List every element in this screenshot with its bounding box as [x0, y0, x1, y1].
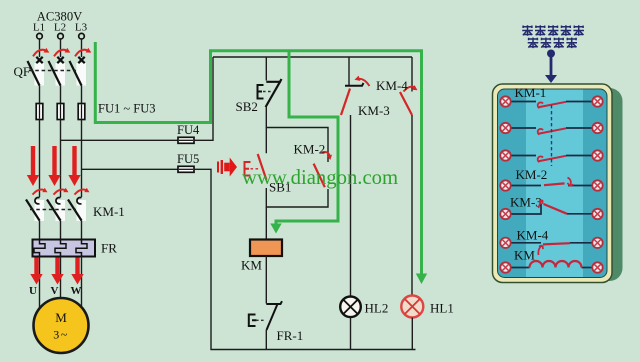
contact cross QF pole2 [57, 57, 63, 63]
current arrow phase3 [68, 146, 80, 186]
panel row 5 KM-3 contact [511, 200, 592, 214]
coil KM [250, 240, 282, 257]
svg-text:KM: KM [241, 258, 262, 273]
contact KM-4 blade [400, 92, 412, 115]
terminal screw R3 [592, 150, 602, 160]
wire KM-4 branch [411, 57, 413, 92]
svg-text:L1: L1 [33, 22, 45, 34]
header char 触 [561, 25, 572, 36]
wire tap FU5 [82, 168, 179, 170]
closing arrow QF pole3 [75, 48, 91, 57]
svg-text:KM-2: KM-2 [516, 167, 548, 182]
svg-text:KM: KM [514, 248, 535, 263]
contact KM-2 blade [314, 164, 325, 188]
terminal screw L4 [500, 180, 510, 190]
white band KM-1 pole3 [77, 200, 87, 221]
fuse FU5 [178, 166, 194, 172]
terminal screw L1 [500, 96, 510, 106]
current arrow phase1 [27, 146, 39, 186]
seat KM-3 [345, 83, 364, 86]
motor M [34, 298, 89, 353]
panel row 3 KM-1 main contact c [511, 156, 592, 163]
wire SB2 drop [265, 57, 267, 81]
header char 作 [566, 38, 577, 49]
svg-text:L3: L3 [75, 22, 88, 34]
panel shadow [503, 88, 623, 281]
svg-text:KM-4: KM-4 [517, 228, 549, 243]
terminal screw R6 [592, 238, 602, 248]
pushbutton SB1 blade (pressed, red) [258, 154, 267, 180]
svg-text:www.diangon.com: www.diangon.com [242, 167, 398, 189]
wire box to coil [265, 207, 267, 240]
panel inner [498, 89, 608, 278]
terminal screw R5 [592, 209, 602, 219]
wire QF to FU2 [60, 86, 62, 105]
closing arrow KM-2 [322, 152, 330, 157]
contact seat KM-1 pole1 [35, 197, 40, 203]
green arrow to HL1 [416, 274, 427, 285]
panel light band [526, 90, 583, 278]
wire L2 to QF [60, 39, 62, 57]
svg-text:FU4: FU4 [177, 123, 200, 137]
contactor blade KM-1 pole1 [26, 200, 40, 221]
white band QF pole1 [35, 63, 45, 86]
svg-text:QF: QF [14, 64, 31, 79]
actuator SB2 [258, 85, 264, 99]
wire FU2 down [60, 120, 62, 198]
wire FR to motor U [39, 257, 41, 309]
wire QF to FU3 [81, 86, 83, 105]
wire FU3 down [81, 120, 83, 198]
panel row 6 KM-4 contact [511, 243, 592, 255]
white band QF pole3 [77, 63, 87, 86]
closing arrow QF pole2 [54, 48, 70, 57]
header char 流 [535, 25, 546, 36]
svg-text:HL1: HL1 [430, 301, 454, 316]
contact seat KM-1 pole2 [56, 198, 61, 204]
white band KM-1 pole2 [56, 200, 66, 221]
wire FU5 riser to bottom bus [194, 169, 416, 349]
wire FR-1 to bus [265, 330, 267, 350]
heater element FR pole2 [55, 241, 66, 257]
terminal screw L2 [500, 123, 510, 133]
wire HL2 to bus [350, 317, 352, 350]
breaker blade QF pole1 [28, 61, 40, 86]
wire control top bus [213, 56, 412, 58]
wire FU1 down [39, 120, 41, 198]
terminal screw R7 [592, 262, 602, 272]
wire FR to motor W [81, 257, 83, 308]
contact cross QF pole3 [78, 57, 84, 63]
closing arrow KM-1 pole2 [54, 188, 69, 195]
wire KM-1 to FR pole3 [81, 221, 83, 241]
wire coil to FR-1 [265, 256, 267, 304]
dashed link SB1 red [251, 168, 260, 170]
terminal screw L5 [500, 209, 510, 219]
svg-text:FU5: FU5 [177, 152, 199, 166]
terminal L3 [79, 33, 85, 39]
svg-text:KM-1: KM-1 [93, 204, 125, 219]
svg-text:FR: FR [101, 241, 117, 256]
white band QF pole2 [56, 63, 66, 86]
header char 交 [522, 25, 533, 36]
fuse FU4 [178, 137, 194, 143]
closing arrow KM-4 [404, 87, 416, 92]
wire KM-1 to FR pole2 [60, 221, 62, 241]
thermal contact FR-1 [266, 301, 282, 330]
svg-text:W: W [71, 285, 82, 297]
contact cross QF pole1 [36, 57, 42, 63]
dashed link FR-1 [256, 319, 265, 321]
linkage KM-1 dashed [30, 209, 76, 211]
terminal screw R2 [592, 123, 602, 133]
wire KM-4 to HL1 [411, 115, 413, 296]
linkage QF dashed [29, 70, 76, 72]
closing arrow KM-1 pole1 [33, 188, 48, 195]
opening arrow KM-3 [358, 79, 370, 86]
svg-text:3~: 3~ [53, 328, 69, 342]
wire QF to FU1 [39, 86, 41, 105]
terminal screw R4 [592, 180, 602, 190]
wire tap FU4 [61, 139, 179, 141]
wire KM-1 to FR pole1 [39, 221, 41, 241]
current arrow motor W [71, 258, 83, 285]
breaker blade QF pole3 [70, 61, 82, 86]
svg-text:V: V [51, 285, 59, 297]
terminal screw R1 [592, 96, 602, 106]
current arrow phase2 [48, 146, 60, 186]
contactor blade KM-1 pole3 [68, 200, 82, 221]
svg-text:M: M [55, 310, 67, 325]
wire parallel box [266, 128, 328, 208]
svg-text:U: U [29, 285, 37, 297]
header char 接 [548, 25, 559, 36]
heater element FR pole3 [76, 241, 87, 257]
header char 器 [573, 25, 584, 36]
contact KM-3 blade [341, 89, 350, 116]
fuse FU3 [78, 104, 85, 120]
panel row 4 KM-2 contact [511, 178, 592, 187]
white band KM-1 pole1 [35, 200, 45, 221]
terminal screw L3 [500, 150, 510, 160]
svg-text:KM-4: KM-4 [376, 78, 408, 93]
header char 部 [541, 38, 552, 49]
dashed link SB2 [263, 91, 272, 93]
svg-text:KM-1: KM-1 [515, 85, 547, 100]
wire HL1 to bus [411, 318, 413, 351]
lamp HL2 [340, 297, 361, 318]
panel row 2 KM-1 main contact b [511, 128, 592, 135]
panel row 7 KM coil [511, 261, 592, 268]
actuator SB1 red [245, 162, 251, 176]
header char 动 [554, 38, 565, 49]
wire FU4 riser [194, 57, 213, 140]
wire KM-3 to HL2 [350, 115, 352, 297]
lamp HL1 [401, 296, 423, 318]
green current path main [95, 42, 421, 274]
closing arrow QF pole1 [33, 48, 49, 57]
svg-text:KM-3: KM-3 [358, 103, 390, 118]
wire L3 to QF [81, 39, 83, 57]
breaker blade QF pole2 [49, 61, 61, 86]
closing arrow KM-1 pole3 [75, 188, 90, 195]
pushbutton SB2 (NC) [266, 79, 282, 107]
terminal screw L7 [500, 262, 510, 272]
actuator FR-1 [249, 315, 257, 327]
terminal L1 [37, 33, 43, 39]
contactor blade KM-1 pole2 [47, 200, 61, 221]
press arrow at SB1 [217, 158, 237, 177]
terminal screw L6 [500, 238, 510, 248]
heater element FR pole1 [34, 241, 45, 257]
contact seat KM-1 pole3 [77, 198, 82, 204]
svg-text:KM-2: KM-2 [294, 142, 326, 157]
thermal relay FR box [33, 240, 96, 257]
svg-text:KM-3: KM-3 [510, 195, 542, 210]
svg-text:FU1 ~ FU3: FU1 ~ FU3 [98, 102, 155, 116]
current arrow motor U [30, 258, 42, 285]
panel body [493, 84, 613, 283]
wire L1 to QF [39, 39, 41, 57]
green current path branch KM-2 coil [276, 51, 338, 224]
panel linkage dashed blue [551, 105, 553, 166]
wire FR to motor V [60, 257, 62, 299]
wire SB2 to node [265, 107, 267, 128]
green arrow to coil [270, 224, 281, 234]
header char 内 [528, 38, 539, 49]
svg-text:SB2: SB2 [236, 99, 258, 114]
svg-text:FR-1: FR-1 [277, 328, 304, 343]
current arrow motor V [51, 258, 63, 285]
fuse FU1 [36, 104, 43, 120]
svg-text:HL2: HL2 [365, 301, 389, 316]
pointer arrow to panel [545, 50, 557, 84]
svg-text:L2: L2 [54, 22, 66, 34]
wire KM-3 branch [348, 57, 350, 85]
panel row 1 KM-1 main contact a [511, 102, 592, 109]
terminal L2 [58, 33, 64, 39]
fuse FU2 [57, 104, 64, 120]
